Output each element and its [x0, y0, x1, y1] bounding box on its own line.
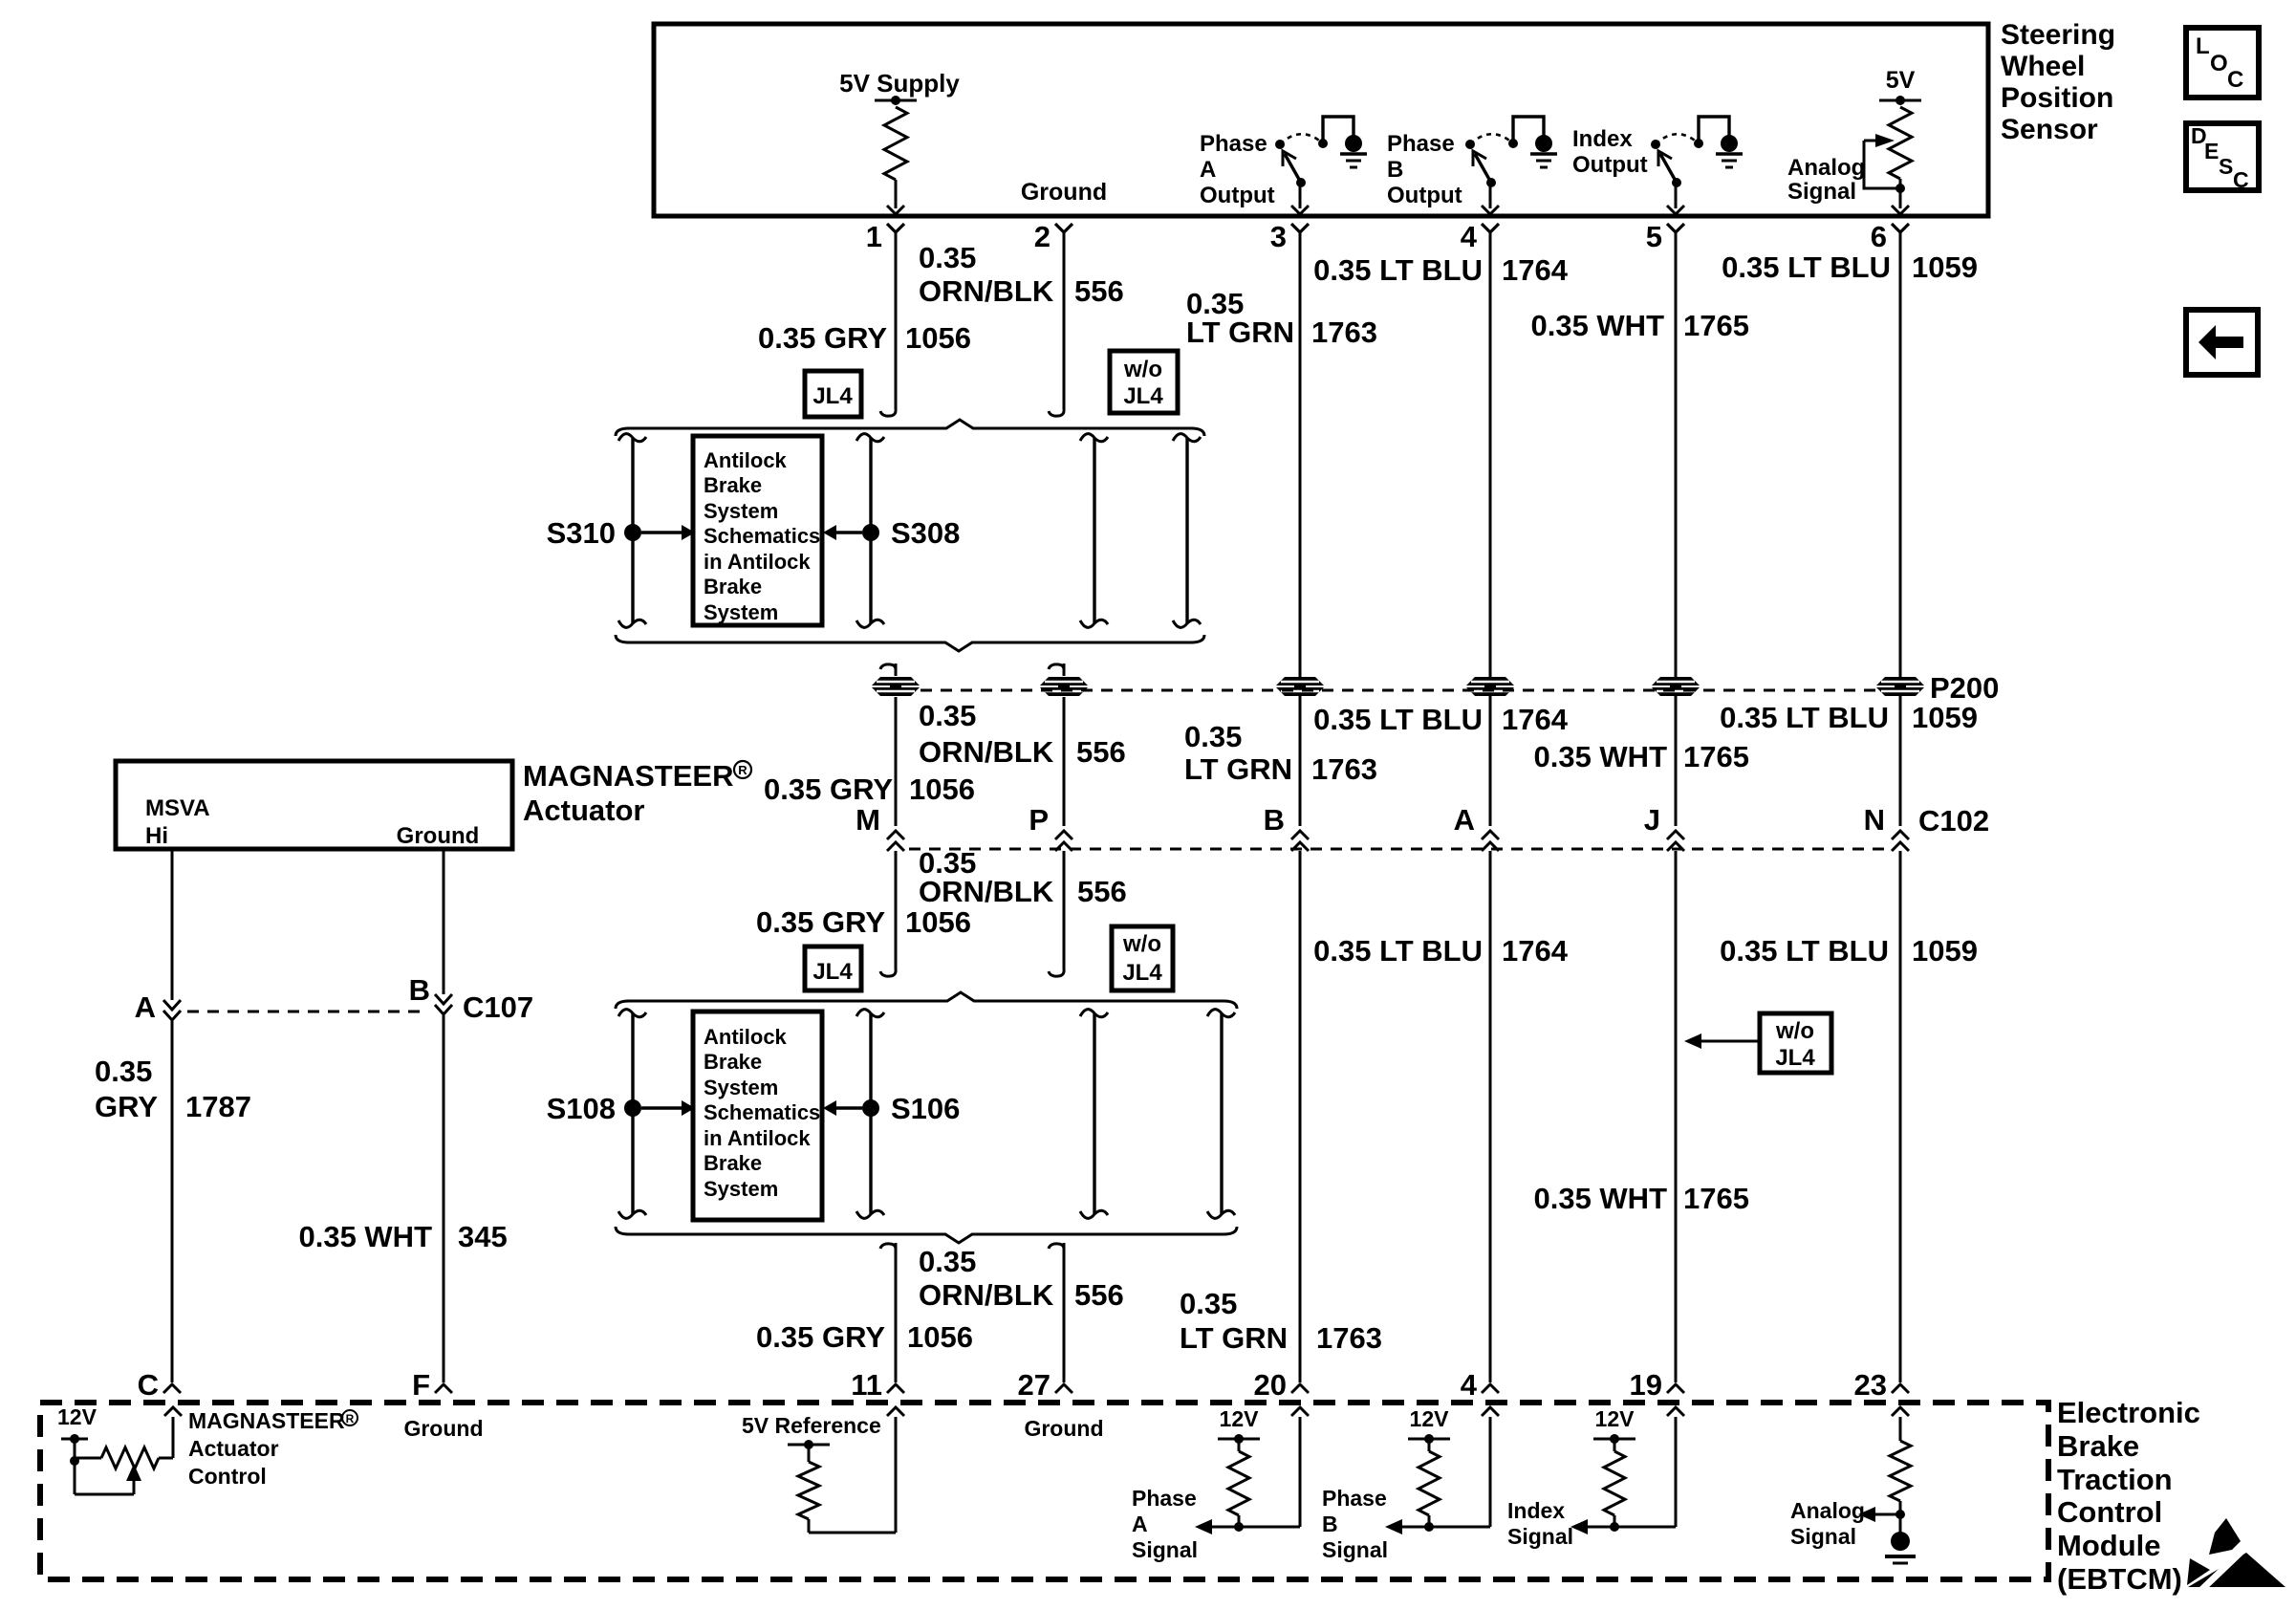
back-arrow box [2186, 310, 2258, 375]
label 0.35 LT GRN 1763 (s2) [1184, 720, 1377, 786]
switch Phase B [1465, 117, 1557, 214]
svg-text:B: B [1387, 157, 1403, 183]
label 0.35 LT BLU 1059 (s3) [1720, 934, 1978, 968]
svg-text:Phase: Phase [1322, 1486, 1387, 1511]
svg-text:ORN/BLK: ORN/BLK [919, 735, 1054, 769]
svg-text:B: B [1322, 1512, 1338, 1536]
svg-text:556: 556 [1074, 1278, 1124, 1312]
svg-text:C: C [2233, 167, 2249, 192]
svg-text:Antilock: Antilock [704, 448, 788, 472]
label 0.35 WHT 1765 (s1) [1530, 309, 1749, 342]
connector P200 W6 [1876, 677, 1924, 696]
brace bottom group1 [616, 635, 1204, 651]
label 0.35 LT BLU 1764 (s3) [1313, 934, 1569, 968]
svg-text:Brake: Brake [704, 1151, 762, 1175]
svg-text:12V: 12V [1410, 1406, 1450, 1431]
svg-text:S108: S108 [547, 1092, 616, 1125]
label 0.35 GRY 1056 (s2) [764, 772, 975, 806]
connector C102 pin B [1264, 803, 1309, 851]
EBTCM analog signal network [1790, 1407, 1916, 1563]
label MAGNASTEER Actuator [523, 759, 751, 827]
connector C102 pin J [1644, 803, 1684, 851]
wire W4 pin4 to EBTCM pin4 (LT BLU 1764) [1489, 232, 1492, 1382]
svg-text:Analog: Analog [1787, 155, 1865, 181]
JL4 box 1 [805, 371, 861, 417]
svg-text:P200: P200 [1930, 671, 1999, 705]
JL4 box 2 [805, 946, 861, 990]
svg-text:Phase: Phase [1132, 1486, 1197, 1511]
splice S106 [823, 1092, 960, 1125]
label MSVA Hi Ground [145, 795, 479, 849]
label 0.35 ORN/BLK 556 (s3) [919, 846, 1127, 908]
svg-text:JL4: JL4 [812, 383, 853, 409]
EBTCM pin 4 [1461, 1368, 1499, 1402]
pin 4 of sensor [1461, 220, 1499, 253]
svg-text:1: 1 [866, 220, 882, 253]
svg-text:1764: 1764 [1502, 253, 1569, 287]
svg-text:LT GRN: LT GRN [1184, 752, 1292, 786]
svg-text:A: A [1454, 803, 1475, 837]
svg-text:L: L [2196, 33, 2210, 59]
label C107 [463, 990, 533, 1024]
EBTCM index signal pull-up [1507, 1406, 1684, 1549]
svg-text:Phase: Phase [1200, 131, 1267, 157]
wire MSVA Ground to C107 B [443, 849, 445, 994]
label 0.35 LT BLU 1764 (s2) [1313, 703, 1569, 736]
svg-text:System: System [704, 1076, 778, 1099]
svg-text:Signal: Signal [1787, 179, 1856, 205]
svg-text:0.35 WHT: 0.35 WHT [298, 1220, 432, 1253]
svg-text:12V: 12V [1220, 1406, 1260, 1431]
connector P200 W1 [872, 677, 920, 696]
svg-text:GRY: GRY [95, 1090, 158, 1123]
svg-text:Hi: Hi [145, 823, 168, 849]
connector C107 pin B [409, 973, 452, 1014]
svg-text:B: B [1264, 803, 1285, 837]
pin 1 of sensor [866, 220, 904, 253]
label 0.35 LT BLU 1059 (s1) [1722, 250, 1978, 284]
svg-text:0.35 GRY: 0.35 GRY [756, 905, 885, 939]
5V supply rail [875, 96, 917, 105]
svg-text:Signal: Signal [1507, 1524, 1573, 1549]
wire W1 seg2 [880, 664, 896, 676]
svg-text:Brake: Brake [704, 1050, 762, 1074]
label 0.35 ORN/BLK 556 (s4) [919, 1245, 1124, 1312]
connector C102 pin N [1864, 803, 1909, 851]
pin 2 of sensor [1034, 220, 1072, 253]
svg-text:O: O [2210, 51, 2228, 76]
svg-text:LT GRN: LT GRN [1186, 315, 1294, 349]
label 0.35 WHT 1765 (s3) [1533, 1182, 1749, 1215]
svg-text:Control: Control [2057, 1495, 2162, 1529]
svg-text:1056: 1056 [907, 1320, 973, 1354]
bundle bracket g1-c [1080, 434, 1108, 628]
svg-text:1059: 1059 [1912, 250, 1978, 284]
svg-text:2: 2 [1034, 220, 1051, 253]
wire 5V resistor to pin1 [887, 180, 904, 214]
wire A to EBTCM pin C [171, 1021, 174, 1382]
label Ground (pin 27) [1024, 1416, 1103, 1441]
svg-text:0.35 GRY: 0.35 GRY [758, 321, 887, 355]
svg-text:0.35 LT BLU: 0.35 LT BLU [1720, 934, 1889, 968]
svg-text:0.35 GRY: 0.35 GRY [764, 772, 893, 806]
svg-text:Antilock: Antilock [704, 1025, 788, 1049]
svg-text:R: R [346, 1412, 355, 1425]
label 5V (analog) [1886, 67, 1916, 94]
connector C107 pin A [135, 990, 181, 1024]
bundle bracket g2-a [618, 1010, 646, 1219]
svg-text:1059: 1059 [1912, 934, 1978, 968]
svg-text:Output: Output [1572, 152, 1648, 178]
svg-text:Brake: Brake [704, 473, 762, 497]
label 0.35 GRY 1787 [95, 1055, 251, 1123]
svg-text:JL4: JL4 [812, 959, 853, 985]
svg-text:w/o: w/o [1122, 931, 1161, 957]
svg-text:0.35: 0.35 [95, 1055, 152, 1088]
svg-text:4: 4 [1461, 220, 1478, 253]
svg-text:R: R [738, 763, 747, 777]
svg-text:in Antilock: in Antilock [704, 1126, 811, 1150]
svg-text:J: J [1644, 803, 1660, 837]
svg-text:Signal: Signal [1790, 1524, 1856, 1549]
svg-text:JL4: JL4 [1775, 1045, 1815, 1071]
wire W2 seg2 [1049, 664, 1064, 676]
label C102 [1918, 804, 1989, 838]
svg-text:1764: 1764 [1502, 934, 1569, 968]
wire W5 pin5 to EBTCM pin19 (WHT 1765) [1675, 232, 1678, 1382]
svg-text:1763: 1763 [1311, 752, 1377, 786]
steering wheel position sensor box [654, 24, 1988, 216]
svg-text:1056: 1056 [909, 772, 975, 806]
bundle bracket g1-d [1173, 434, 1201, 628]
svg-text:1763: 1763 [1316, 1321, 1382, 1355]
wire W6 pin6 to EBTCM pin23 (LT BLU 1059) [1899, 232, 1902, 1382]
wire W1 seg5 to EBTCM pin11 [880, 1243, 896, 1382]
svg-text:0.35: 0.35 [1184, 720, 1242, 753]
C107 dashed line [187, 1011, 428, 1013]
svg-text:0.35: 0.35 [919, 699, 976, 732]
svg-text:5V Supply: 5V Supply [839, 69, 960, 98]
svg-text:C102: C102 [1918, 804, 1989, 838]
connector P200 W4 [1466, 677, 1514, 696]
svg-text:C107: C107 [463, 990, 533, 1024]
wire W2 seg1 (ORN/BLK 556) [1049, 232, 1064, 416]
svg-text:0.35: 0.35 [919, 1245, 976, 1278]
bundle bracket g1-a [618, 434, 646, 628]
svg-text:Module: Module [2057, 1529, 2161, 1562]
svg-text:B: B [409, 973, 430, 1007]
bundle bracket g1-b [856, 434, 884, 628]
w/o JL4 box 1 [1110, 351, 1178, 413]
svg-text:Traction: Traction [2057, 1463, 2173, 1496]
svg-text:MSVA: MSVA [145, 795, 210, 821]
potentiometer R-analog [1889, 107, 1912, 179]
svg-text:0.35: 0.35 [919, 241, 976, 274]
wire W2 seg3 [1063, 697, 1066, 826]
svg-text:Ground: Ground [403, 1416, 483, 1441]
connector P200 W2 [1040, 677, 1088, 696]
pin 6 of sensor [1871, 220, 1909, 253]
label 0.35 LT BLU 1764 (s1) [1313, 253, 1569, 287]
svg-text:System: System [704, 600, 778, 624]
label 0.35 WHT 1765 (s2) [1533, 740, 1749, 773]
DESC box [2186, 123, 2259, 192]
svg-text:556: 556 [1077, 875, 1127, 908]
svg-text:System: System [704, 1177, 778, 1201]
svg-text:1787: 1787 [185, 1090, 251, 1123]
label Ground (sensor pin2) [1021, 179, 1107, 206]
svg-text:1765: 1765 [1683, 740, 1749, 773]
svg-text:5V: 5V [1886, 67, 1916, 94]
label 0.35 LT BLU 1059 (s2) [1720, 701, 1978, 734]
svg-text:w/o: w/o [1123, 357, 1162, 382]
splice S310 [547, 516, 695, 550]
brace top group1 [616, 420, 1204, 436]
splice S308 [823, 516, 960, 550]
svg-text:11: 11 [851, 1368, 882, 1402]
MAGNASTEER actuator box [116, 761, 512, 849]
brace bottom group2 [616, 1227, 1237, 1243]
svg-text:Control: Control [188, 1464, 267, 1489]
svg-text:Wheel: Wheel [2001, 51, 2085, 82]
svg-text:w/o: w/o [1775, 1018, 1814, 1044]
svg-text:0.35 GRY: 0.35 GRY [756, 1320, 885, 1354]
svg-text:1765: 1765 [1683, 1182, 1749, 1215]
wire W1 seg4 [880, 851, 896, 976]
svg-text:JL4: JL4 [1123, 383, 1163, 409]
label Phase A Output [1200, 131, 1275, 208]
svg-text:Analog: Analog [1790, 1498, 1865, 1523]
label 0.35 LT GRN 1763 (s1) [1186, 287, 1377, 349]
svg-text:0.35 LT BLU: 0.35 LT BLU [1313, 253, 1483, 287]
connector P200 W5 [1652, 677, 1700, 696]
svg-text:Schematics: Schematics [704, 1100, 820, 1124]
svg-text:Actuator: Actuator [188, 1436, 279, 1461]
label 0.35 GRY 1056 (s1) [758, 321, 971, 355]
svg-text:5V Reference: 5V Reference [742, 1413, 881, 1438]
EBTCM pin C [138, 1368, 181, 1402]
EBTCM pin F [412, 1368, 452, 1402]
ABS schematics box 1 [693, 436, 822, 625]
svg-text:C: C [2227, 67, 2243, 93]
EBTCM pin 23 [1854, 1368, 1909, 1402]
svg-text:JL4: JL4 [1122, 960, 1162, 986]
svg-text:Schematics: Schematics [704, 524, 820, 548]
switch Phase A [1275, 117, 1367, 214]
svg-text:S308: S308 [891, 516, 960, 550]
svg-text:0.35 LT BLU: 0.35 LT BLU [1722, 250, 1891, 284]
svg-text:MAGNASTEER: MAGNASTEER [523, 759, 733, 793]
EBTCM dashed box [40, 1403, 2048, 1579]
svg-text:0.35 WHT: 0.35 WHT [1533, 740, 1667, 773]
svg-text:Ground: Ground [397, 823, 480, 849]
svg-text:1763: 1763 [1311, 315, 1377, 349]
svg-text:Signal: Signal [1322, 1537, 1388, 1562]
svg-text:345: 345 [458, 1220, 508, 1253]
5V analog rail [1879, 96, 1921, 105]
svg-text:Position: Position [2001, 82, 2113, 114]
LOC box [2186, 28, 2259, 98]
label 0.35 LT GRN 1763 (s4) [1180, 1287, 1382, 1355]
label 5V Supply [839, 69, 960, 98]
svg-text:in Antilock: in Antilock [704, 550, 811, 574]
EBTCM 5V reference resistor [742, 1407, 904, 1533]
wire W1 seg3 [895, 697, 898, 826]
svg-text:(EBTCM): (EBTCM) [2057, 1562, 2182, 1596]
wire analog resistor to pin6 [1892, 179, 1909, 214]
label Analog Signal [1787, 155, 1865, 205]
P200 dashed line [921, 689, 1875, 692]
svg-text:ORN/BLK: ORN/BLK [919, 875, 1054, 908]
svg-text:System: System [704, 499, 778, 523]
svg-text:MAGNASTEER: MAGNASTEER [188, 1408, 345, 1433]
EBTCM 12V magnasteer control pot [57, 1404, 182, 1494]
svg-text:1765: 1765 [1683, 309, 1749, 342]
svg-text:6: 6 [1871, 220, 1887, 253]
wire W3 pin3 to EBTCM pin20 (LT GRN 1763) [1299, 232, 1302, 1382]
connector P200 W3 [1276, 677, 1324, 696]
svg-text:12V: 12V [1595, 1406, 1635, 1431]
svg-text:3: 3 [1270, 220, 1287, 253]
svg-text:0.35 WHT: 0.35 WHT [1533, 1182, 1667, 1215]
label 0.35 GRY 1056 (s3) [756, 905, 971, 939]
svg-text:5: 5 [1646, 220, 1662, 253]
svg-text:Steering: Steering [2001, 19, 2115, 51]
svg-text:A: A [1132, 1512, 1148, 1536]
label MAGNASTEER Actuator Control [188, 1408, 357, 1489]
svg-text:M: M [856, 803, 880, 837]
wiper arrow analog [1864, 134, 1905, 193]
pin 3 of sensor [1270, 220, 1309, 253]
svg-text:C: C [138, 1368, 159, 1402]
svg-text:Output: Output [1200, 183, 1275, 208]
svg-text:LT GRN: LT GRN [1180, 1321, 1288, 1355]
label Ground (pin F) [403, 1416, 483, 1441]
wire W1 seg1 (GRY 1056) [880, 232, 896, 416]
svg-text:Ground: Ground [1021, 179, 1107, 206]
wire B to EBTCM pin F [443, 1015, 445, 1382]
svg-text:0.35: 0.35 [1180, 1287, 1237, 1320]
EBTCM pin 27 [1018, 1368, 1072, 1402]
EBTCM phase A signal pull-up [1132, 1406, 1309, 1562]
svg-text:Sensor: Sensor [2001, 114, 2098, 145]
svg-text:19: 19 [1630, 1368, 1662, 1402]
svg-text:A: A [135, 990, 156, 1024]
svg-text:0.35 LT BLU: 0.35 LT BLU [1313, 703, 1483, 736]
wire stubs above P200 W3-W6 [1300, 669, 1900, 676]
svg-text:20: 20 [1254, 1368, 1287, 1402]
EBTCM pin 11 [851, 1368, 904, 1402]
svg-text:1056: 1056 [905, 321, 971, 355]
connector C102 pin M [856, 803, 904, 851]
ESD warning symbol [2187, 1518, 2285, 1590]
wire MSVA Hi to C107 A [171, 849, 174, 1000]
label Phase B Output [1387, 131, 1462, 208]
svg-text:P: P [1029, 803, 1049, 837]
svg-text:E: E [2204, 139, 2219, 163]
svg-text:Phase: Phase [1387, 131, 1455, 157]
wire W2 seg4 [1049, 851, 1064, 976]
splice S108 [547, 1092, 695, 1125]
connector C102 pin A [1454, 803, 1499, 851]
svg-text:Signal: Signal [1132, 1537, 1198, 1562]
svg-text:N: N [1864, 803, 1885, 837]
svg-text:23: 23 [1854, 1368, 1887, 1402]
label Steering Wheel Position Sensor [2001, 19, 2115, 145]
svg-text:Ground: Ground [1024, 1416, 1103, 1441]
svg-text:Index: Index [1572, 126, 1633, 152]
svg-text:1059: 1059 [1912, 701, 1978, 734]
w/o JL4 box 2 [1112, 926, 1173, 990]
svg-text:4: 4 [1461, 1368, 1478, 1402]
ABS schematics box 2 [693, 1012, 822, 1220]
w/o JL4 box 3 with arrow [1684, 1013, 1831, 1073]
svg-text:Electronic: Electronic [2057, 1396, 2200, 1429]
svg-text:F: F [412, 1368, 430, 1402]
svg-text:ORN/BLK: ORN/BLK [919, 274, 1054, 308]
svg-text:Brake: Brake [704, 575, 762, 598]
svg-text:Actuator: Actuator [523, 794, 644, 827]
switch Index [1651, 117, 1743, 214]
resistor R-5V in sensor [884, 107, 907, 180]
bundle bracket g2-c [1080, 1010, 1108, 1219]
label 0.35 GRY 1056 (s4) [756, 1320, 973, 1354]
bundle bracket g2-d [1207, 1010, 1235, 1219]
EBTCM pin 20 [1254, 1368, 1309, 1402]
label Index Output [1572, 126, 1648, 178]
label P200 [1930, 671, 1999, 705]
svg-text:Brake: Brake [2057, 1429, 2139, 1463]
svg-text:1056: 1056 [905, 905, 971, 939]
svg-text:1764: 1764 [1502, 703, 1569, 736]
pin 5 of sensor [1646, 220, 1684, 253]
svg-text:A: A [1200, 157, 1216, 183]
EBTCM pin 19 [1630, 1368, 1684, 1402]
svg-text:12V: 12V [57, 1404, 97, 1429]
svg-text:S310: S310 [547, 516, 616, 550]
svg-text:556: 556 [1074, 274, 1124, 308]
label 0.35 ORN/BLK 556 (s1) [919, 241, 1124, 308]
svg-text:ORN/BLK: ORN/BLK [919, 1278, 1054, 1312]
label 0.35 WHT 345 [298, 1220, 507, 1253]
label Electronic Brake Traction Control Module (EBTCM) [2057, 1396, 2200, 1596]
connector C102 pin P [1029, 803, 1072, 851]
svg-text:Output: Output [1387, 183, 1462, 208]
svg-text:S106: S106 [891, 1092, 960, 1125]
svg-text:0.35 WHT: 0.35 WHT [1530, 309, 1664, 342]
svg-text:27: 27 [1018, 1368, 1051, 1402]
wire W2 seg5 to EBTCM pin27 [1049, 1243, 1064, 1382]
svg-text:556: 556 [1076, 735, 1126, 769]
C102 dashed line [909, 848, 1887, 851]
EBTCM phase B signal pull-up [1322, 1406, 1499, 1562]
svg-text:Index: Index [1507, 1498, 1565, 1523]
svg-text:0.35 LT BLU: 0.35 LT BLU [1720, 701, 1889, 734]
svg-text:S: S [2219, 154, 2233, 179]
brace top group2 [616, 992, 1237, 1009]
bundle bracket g2-b [856, 1010, 884, 1219]
svg-text:0.35 LT BLU: 0.35 LT BLU [1313, 934, 1483, 968]
label 0.35 ORN/BLK 556 (s2) [919, 699, 1126, 769]
